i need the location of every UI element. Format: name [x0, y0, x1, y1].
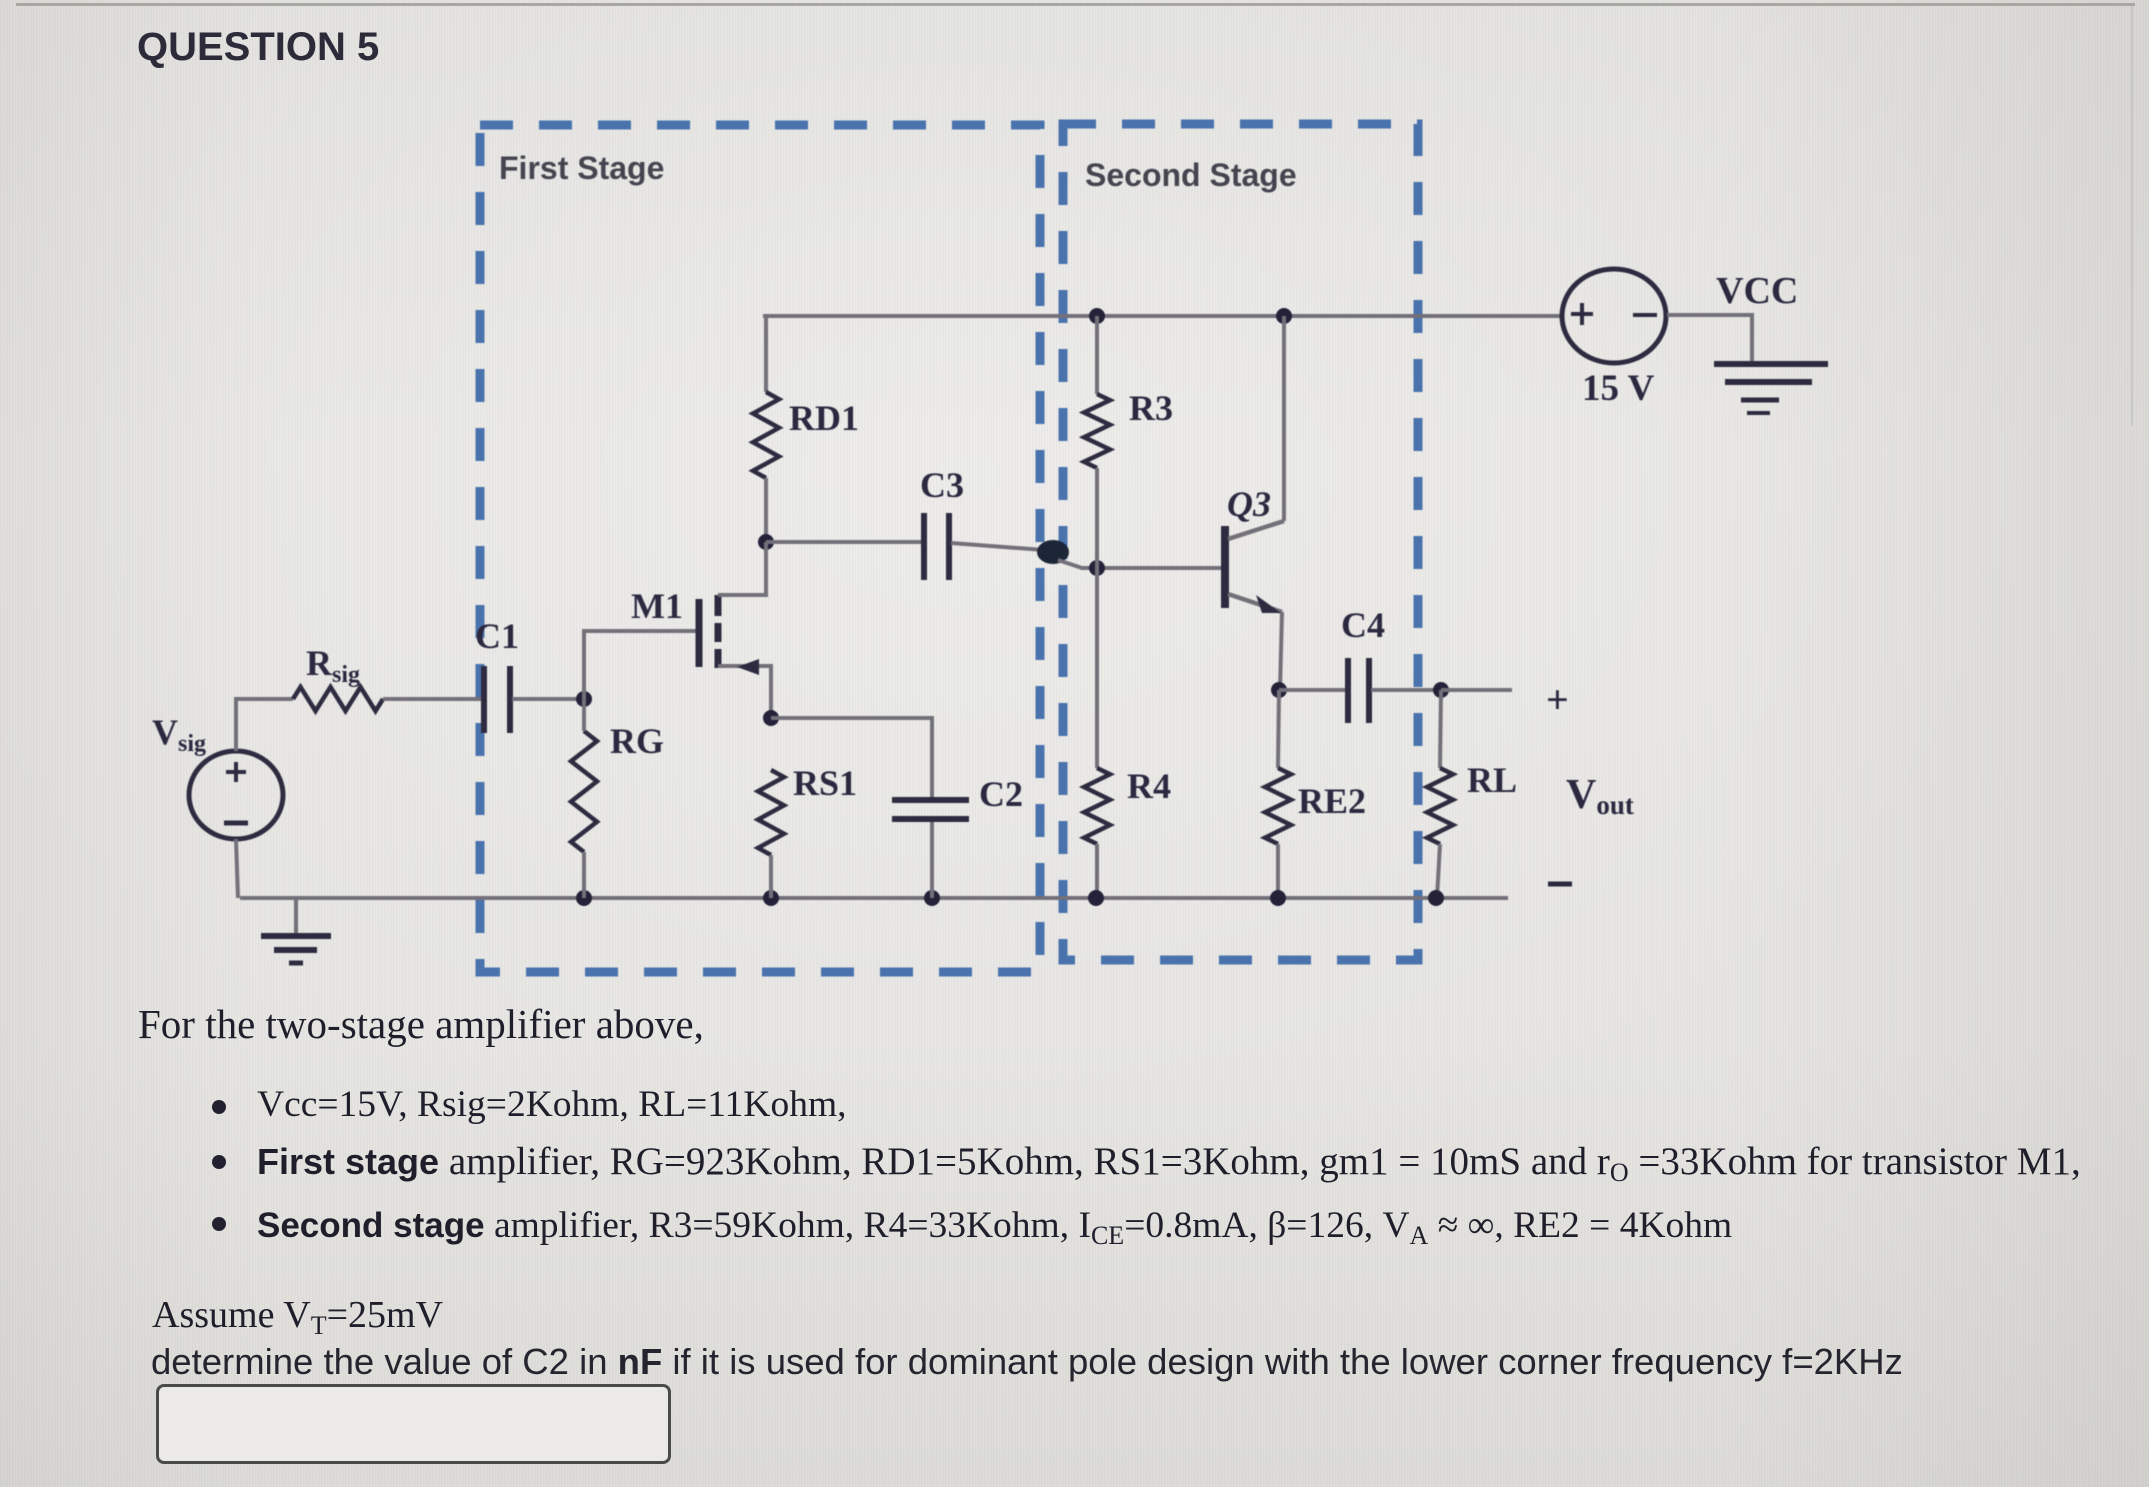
resistor R4: [1084, 768, 1110, 844]
wire: bottom ground rail: [240, 896, 1508, 900]
wire: Vsig bottom lead: [236, 839, 238, 898]
wire: output stub: [1441, 688, 1512, 692]
svg-text:R4: R4: [1127, 766, 1171, 806]
wire: C2 bottom lead: [930, 822, 934, 898]
wire: top supply rail: [763, 314, 1561, 318]
svg-text:RL: RL: [1467, 760, 1517, 800]
ground at Vsig: [261, 936, 331, 963]
node: R3 top: [1089, 308, 1105, 324]
capacitor C1: [484, 666, 510, 733]
wire: R4 top lead: [1095, 568, 1099, 768]
svg-text:C3: C3: [920, 465, 964, 505]
svg-text:Second Stage: Second Stage: [1085, 157, 1297, 193]
svg-text:M1: M1: [631, 586, 683, 626]
bullet 1: [212, 1100, 226, 1114]
line: Assume VT=25mV: [152, 1293, 443, 1341]
voltage source VCC 15V: [1562, 269, 1666, 363]
wire: R3 bottom lead: [1095, 468, 1099, 568]
resistor RD1: [753, 392, 779, 478]
svg-text:Rsig: Rsig: [306, 643, 360, 688]
wire: RE2 bottom lead: [1276, 844, 1280, 898]
answer input box: [156, 1384, 671, 1464]
svg-text:C1: C1: [475, 616, 519, 656]
wire: R3 top lead: [1095, 316, 1099, 394]
resistor Rsig: [293, 687, 383, 711]
node: emitter junction: [1271, 682, 1287, 698]
wire: VCC to ground stem: [1667, 315, 1752, 362]
paragraph: For the two-stage amplifier above,: [138, 1000, 704, 1048]
wire: drain to C3: [766, 540, 922, 544]
resistor RE2: [1265, 768, 1291, 844]
node: R3/R4/base junction: [1089, 560, 1105, 576]
wire: ground stem: [294, 898, 298, 934]
wire: collector vertical: [1282, 316, 1286, 521]
node: RL top: [1433, 682, 1449, 698]
node: collector top: [1276, 308, 1292, 324]
wire: node A to Q3 base: [1058, 560, 1221, 568]
svg-text:VCC: VCC: [1716, 270, 1798, 312]
capacitor C3: [924, 513, 949, 580]
voltage source Vsig: [189, 751, 283, 839]
wire: source node to C2: [771, 718, 932, 798]
node: gate/RG junction: [576, 691, 592, 707]
faint right edge line: [2131, 6, 2133, 426]
node: bottom rail junction x=932: [924, 890, 940, 906]
label output minus: [1548, 882, 1572, 887]
bullet 2: [212, 1155, 226, 1169]
wire: RL top lead: [1440, 690, 1441, 768]
wire: Vsig top lead: [236, 699, 293, 751]
node: bottom rail junction x=1278: [1270, 890, 1286, 906]
bullet 3: [212, 1217, 226, 1231]
wire: RD1 top lead: [764, 316, 768, 392]
wire: R4 bottom lead: [1095, 844, 1099, 898]
wire: gate lead: [584, 631, 696, 699]
wire: Rsig to C1: [383, 697, 481, 701]
svg-text:Vsig: Vsig: [152, 712, 206, 757]
svg-text:RE2: RE2: [1298, 781, 1366, 821]
node: bottom rail junction x=771: [763, 890, 779, 906]
svg-text:R3: R3: [1129, 388, 1173, 428]
svg-text:RG: RG: [610, 721, 664, 761]
svg-text:RD1: RD1: [789, 398, 859, 438]
svg-text:C2: C2: [979, 774, 1023, 814]
Second Stage dashed box: [1063, 124, 1418, 960]
wire: emitter vertical: [1280, 612, 1282, 690]
node: source junction: [763, 710, 779, 726]
resistor R3: [1084, 394, 1110, 468]
wire: C3 to node A: [951, 543, 1044, 550]
wire: C1 to gate node: [512, 697, 584, 701]
resistor RL: [1427, 768, 1453, 844]
svg-text:C4: C4: [1341, 605, 1385, 645]
svg-text:First Stage: First Stage: [499, 150, 664, 186]
svg-text:Q3: Q3: [1227, 484, 1271, 524]
capacitor C2: [892, 800, 969, 819]
svg-text:15 V: 15 V: [1582, 368, 1655, 409]
resistor RS1: [758, 770, 784, 855]
svg-text:Vout: Vout: [1566, 772, 1634, 820]
ground at VCC: [1714, 364, 1828, 413]
capacitor C4: [1348, 658, 1369, 723]
node: bottom rail junction x=1096: [1088, 890, 1104, 906]
node: bottom rail junction x=584: [576, 890, 592, 906]
wire: RE2 top lead: [1278, 690, 1279, 768]
resistor RG: [571, 731, 597, 852]
svg-text:+: +: [1546, 677, 1569, 722]
line: determine the value of C2 ...: [151, 1341, 1903, 1383]
wire: RL bottom lead: [1437, 844, 1440, 898]
transistor M1 (NMOS): [699, 542, 771, 718]
node: bottom rail junction x=1436: [1428, 890, 1444, 906]
wire: emitter to C4: [1279, 688, 1346, 692]
svg-text:RS1: RS1: [793, 763, 857, 803]
First Stage dashed box: [480, 125, 1040, 972]
wire: C4 to RL node: [1371, 688, 1441, 692]
top divider line: [16, 3, 2135, 6]
transistor Q3: [1225, 521, 1284, 613]
node: drain junction: [758, 534, 774, 550]
node A (interstage blob): [1037, 540, 1069, 564]
heading QUESTION 5: [137, 25, 379, 70]
wire: RS1 bottom lead: [769, 855, 773, 898]
wire: RG leads: [582, 699, 586, 731]
wire: RD1 bottom lead: [764, 478, 768, 542]
